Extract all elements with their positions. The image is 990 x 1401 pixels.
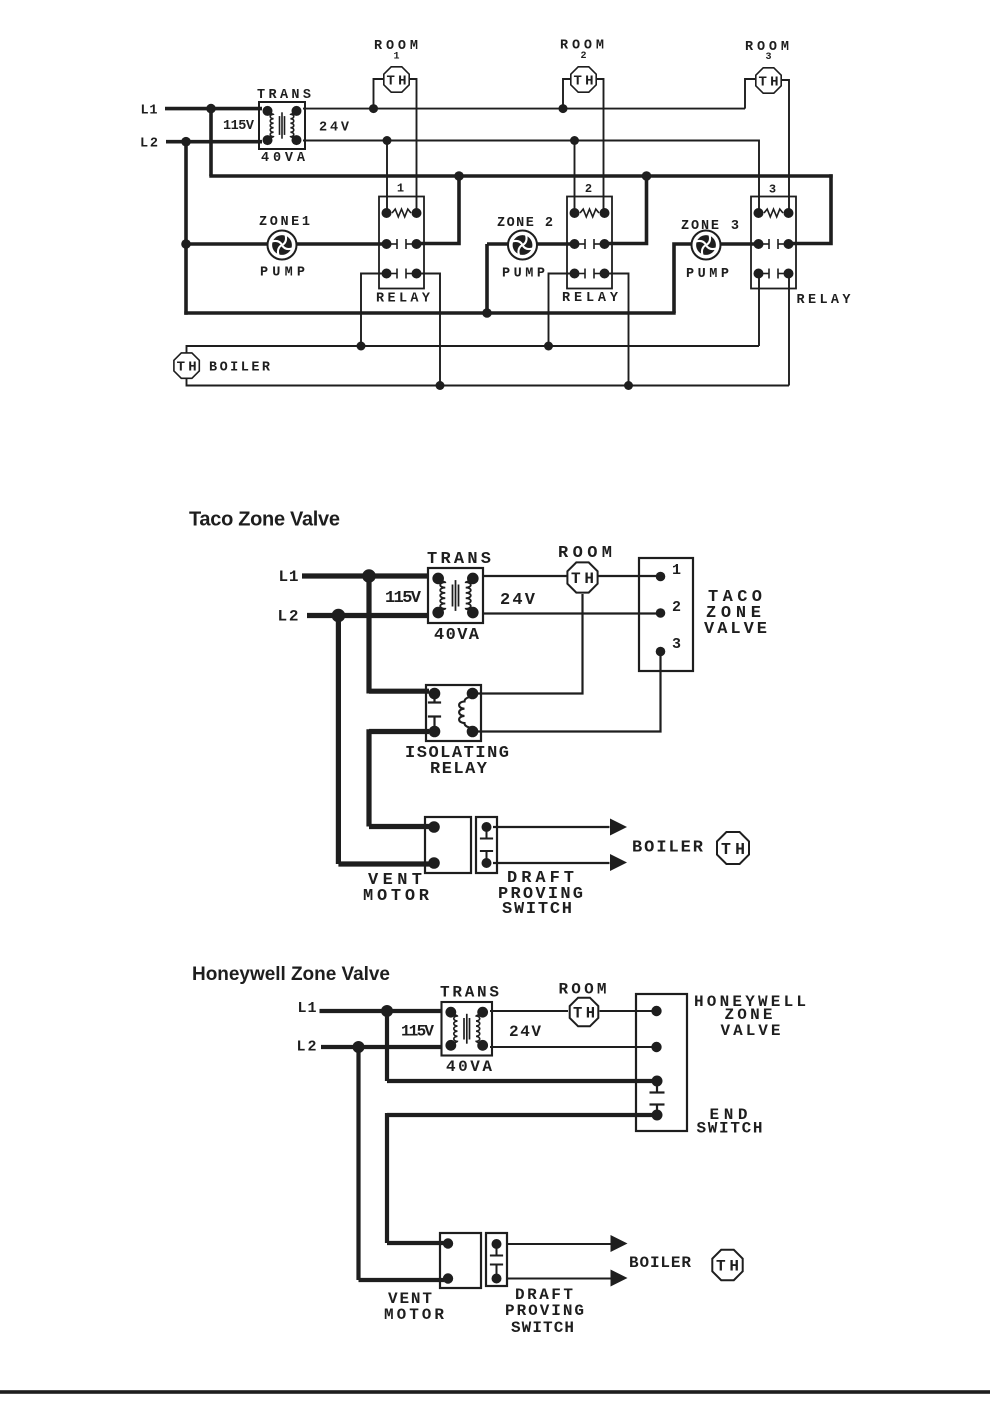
svg-text:MOTOR: MOTOR: [384, 1306, 444, 1324]
svg-text:TRANS: TRANS: [440, 984, 499, 1002]
svg-text:2: 2: [585, 182, 592, 196]
svg-text:1: 1: [672, 562, 681, 579]
svg-text:3: 3: [672, 636, 681, 653]
svg-text:115V: 115V: [385, 589, 422, 608]
svg-text:L2: L2: [297, 1039, 317, 1056]
svg-text:1: 1: [393, 52, 399, 63]
svg-text:VALVE: VALVE: [721, 1022, 781, 1040]
svg-text:115V: 115V: [401, 1023, 434, 1041]
svg-text:RELAY: RELAY: [430, 760, 488, 779]
svg-text:L1: L1: [141, 104, 158, 119]
svg-text:L2: L2: [278, 608, 299, 626]
svg-text:TRANS: TRANS: [427, 550, 491, 569]
svg-text:ZONE1: ZONE1: [259, 215, 310, 230]
svg-text:1: 1: [397, 182, 404, 196]
svg-text:24V: 24V: [319, 121, 350, 136]
svg-text:40VA: 40VA: [434, 626, 480, 645]
svg-text:MOTOR: MOTOR: [363, 887, 430, 906]
svg-text:3: 3: [765, 52, 771, 63]
svg-text:PROVING: PROVING: [505, 1302, 584, 1320]
svg-text:2: 2: [672, 599, 681, 616]
svg-text:24V: 24V: [509, 1023, 541, 1041]
svg-text:VALVE: VALVE: [704, 620, 767, 639]
svg-text:3: 3: [769, 183, 776, 197]
svg-text:BOILER: BOILER: [629, 1254, 691, 1272]
svg-text:L1: L1: [279, 568, 299, 586]
svg-text:L1: L1: [298, 1000, 317, 1017]
svg-text:TRANS: TRANS: [257, 88, 311, 103]
svg-text:115V: 115V: [223, 119, 255, 134]
svg-text:2: 2: [580, 51, 586, 62]
svg-text:L2: L2: [140, 137, 158, 152]
svg-text:Taco Zone Valve: Taco Zone Valve: [189, 509, 340, 531]
svg-text:SWITCH: SWITCH: [511, 1319, 574, 1337]
svg-text:24V: 24V: [500, 591, 536, 610]
svg-text:Honeywell Zone Valve: Honeywell Zone Valve: [192, 964, 390, 985]
